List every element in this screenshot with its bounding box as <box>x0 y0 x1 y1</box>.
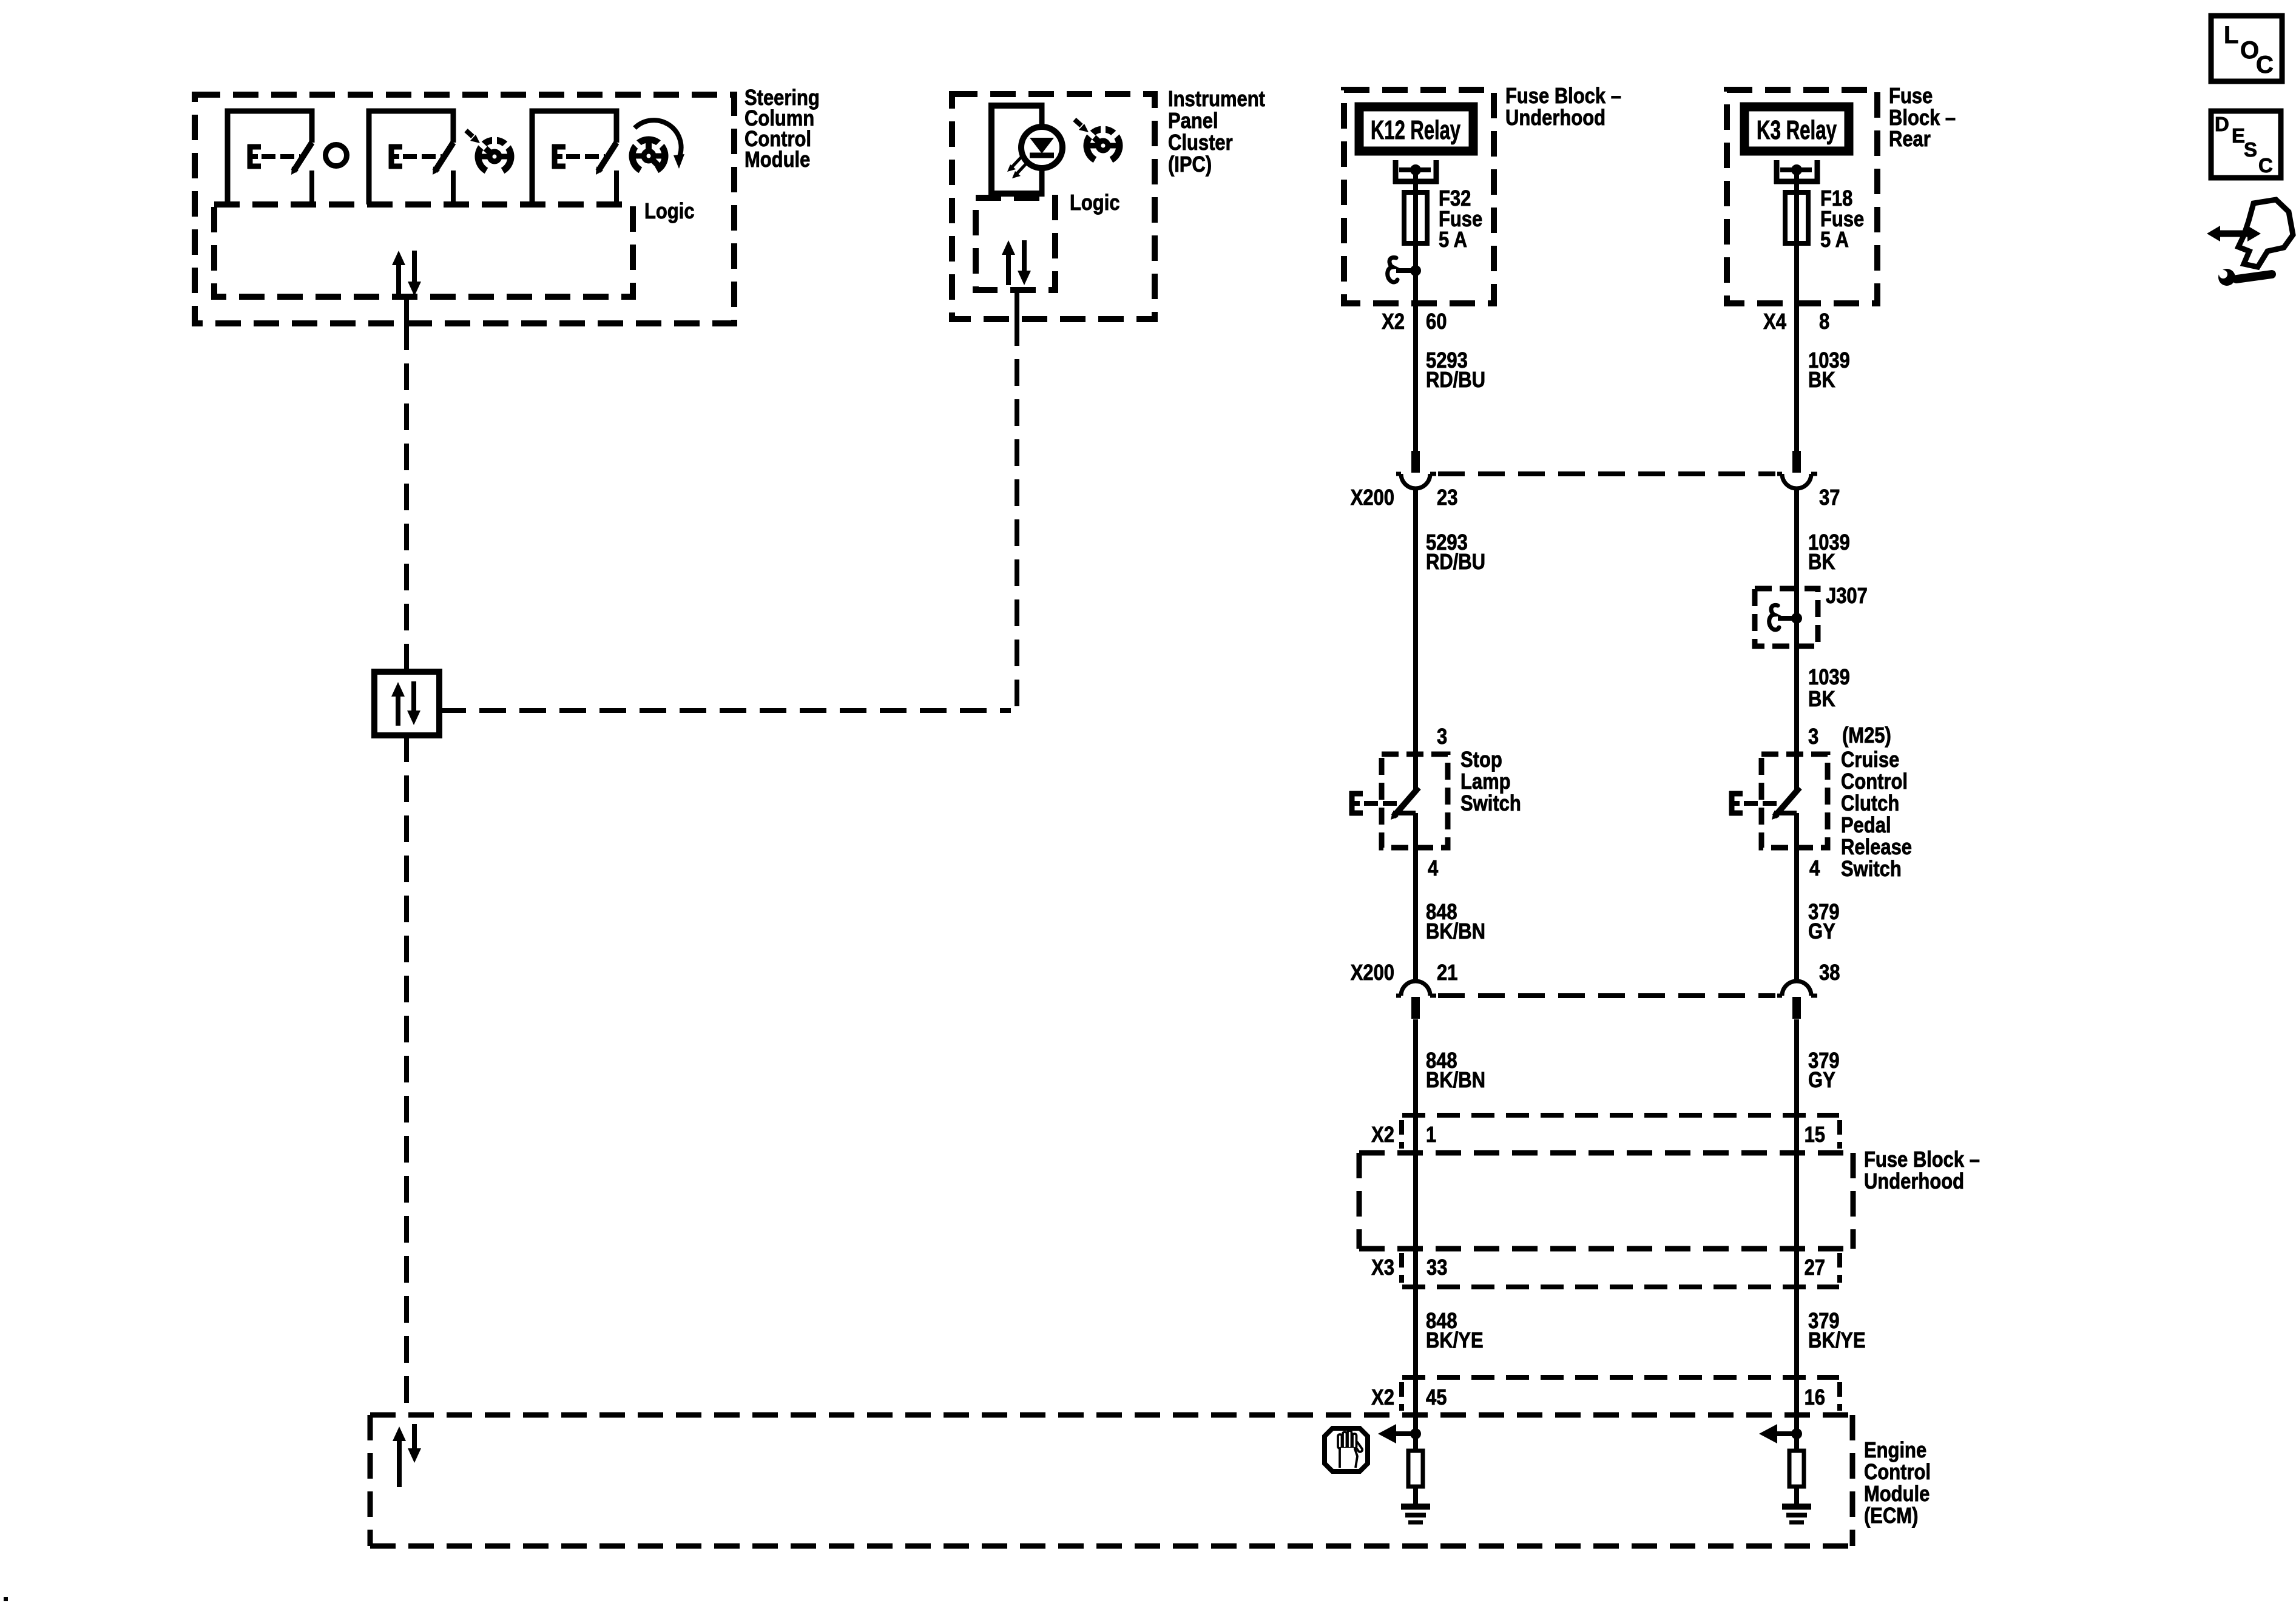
wire: serial data from SCCM (dashed) down to gateway <box>404 323 409 672</box>
wire label: 5293 RD/BU (upper) <box>1426 349 1485 393</box>
svg-text:BK/BN: BK/BN <box>1426 1068 1485 1093</box>
svg-text:L: L <box>2224 22 2238 49</box>
relay K12 name box <box>1359 107 1473 151</box>
wire: K3 relay to fuse F18 <box>1794 170 1799 245</box>
svg-text:Fuse Block –: Fuse Block – <box>1864 1148 1980 1172</box>
wire: IPC logic to module edge <box>1015 290 1019 319</box>
svg-text:60: 60 <box>1426 310 1447 334</box>
connector X200 pin 23 (inline) <box>1396 451 1436 488</box>
terminal clip J307 <box>1769 605 1802 630</box>
svg-text:Clutch: Clutch <box>1841 792 1899 816</box>
wire label: 1039 BK (lower) <box>1808 666 1850 712</box>
wire label: 848 BK/BN (upper) <box>1426 900 1485 944</box>
svg-text:X200: X200 <box>1351 486 1394 510</box>
svg-text:GY: GY <box>1808 1068 1835 1093</box>
svg-text:C: C <box>2258 154 2273 177</box>
svg-text:(M25): (M25) <box>1842 724 1891 748</box>
label: J307 <box>1826 584 1868 609</box>
svg-text:RD/BU: RD/BU <box>1426 550 1485 575</box>
svg-text:4: 4 <box>1428 857 1439 881</box>
label: 38 <box>1819 961 1840 985</box>
svg-text:K12 Relay: K12 Relay <box>1371 115 1460 145</box>
LED indicator (cruise lamp) in IPC <box>1021 127 1062 168</box>
label: Logic (SCCM) <box>644 200 695 224</box>
svg-text:Engine: Engine <box>1864 1439 1926 1463</box>
svg-text:5 A: 5 A <box>1439 228 1467 252</box>
wire: X200-38 down to fuse block X2-15 <box>1794 1019 1799 1434</box>
label: Logic (IPC) <box>1070 191 1120 215</box>
splice J307 (dashed box) <box>1755 589 1818 646</box>
wire label: 379 GY (lower) <box>1808 1049 1840 1093</box>
wire: SCCM logic to module edge <box>404 297 409 323</box>
label: Engine Control Module (ECM) <box>1864 1439 1931 1528</box>
label: Fuse Block - Rear <box>1889 84 1956 152</box>
wire: X200-37 to J307 <box>1794 487 1799 791</box>
svg-text:Logic: Logic <box>1070 191 1120 215</box>
svg-text:BK: BK <box>1808 550 1835 575</box>
switch: Cruise Control Clutch Pedal Release Switch <box>1729 754 1828 848</box>
pin label X2 60 <box>1382 310 1447 334</box>
connector strip X2 separators <box>1402 1120 1840 1149</box>
svg-text:X4: X4 <box>1763 310 1786 334</box>
svg-text:BK/YE: BK/YE <box>1426 1329 1484 1353</box>
fuse F18 <box>1785 192 1808 243</box>
serial data arrows in SCCM logic <box>392 251 421 297</box>
svg-text:C: C <box>2256 52 2274 78</box>
switch S3 resume (E-actuator switch) in SCCM <box>532 111 616 204</box>
svg-text:Lamp: Lamp <box>1460 770 1511 794</box>
logic box inside SCCM (dashed) <box>214 204 633 297</box>
svg-text:Module: Module <box>745 148 810 172</box>
svg-text:BK/BN: BK/BN <box>1426 920 1485 944</box>
connector strip ECM X2 separators <box>1402 1382 1840 1411</box>
svg-text:Rear: Rear <box>1889 127 1931 152</box>
svg-text:8: 8 <box>1819 310 1829 334</box>
svg-text:23: 23 <box>1437 486 1457 510</box>
label: Fuse Block - Underhood (lower) <box>1864 1148 1980 1194</box>
node: serial data junction box <box>374 672 439 735</box>
wire: serial data from IPC (dashed) <box>1015 319 1019 711</box>
svg-text:Fuse: Fuse <box>1889 84 1933 109</box>
pin label 4 (stop lamp switch) <box>1428 857 1439 881</box>
label: Fuse Block - Underhood <box>1505 84 1621 130</box>
connector strip X2 top line <box>1402 1113 1839 1118</box>
indicator lamp branch box in IPC <box>991 103 1042 197</box>
switch: Stop Lamp Switch <box>1349 754 1448 848</box>
connector strip X3 bottom line <box>1402 1284 1839 1289</box>
page mark (bottom left dot) <box>4 1597 8 1601</box>
svg-text:Panel: Panel <box>1168 109 1218 133</box>
connector strip ECM X2 top line <box>1402 1375 1839 1380</box>
component box: Fuse Block - Rear (dashed outline) <box>1727 90 1877 303</box>
svg-text:Release: Release <box>1841 836 1912 860</box>
svg-text:27: 27 <box>1805 1256 1825 1280</box>
wire label: 379 BK/YE <box>1808 1309 1866 1353</box>
label: 37 <box>1819 486 1840 510</box>
svg-text:Cruise: Cruise <box>1841 748 1899 772</box>
module box: Instrument Panel Cluster (dashed outline) <box>952 94 1155 319</box>
component box: Fuse Block - Underhood (dashed outline) <box>1344 90 1494 303</box>
switch S1 cruise on/off (E-actuator switch) in SCCM <box>228 111 312 204</box>
LED emission arrows <box>1007 157 1026 178</box>
wire: fuse block to connector X2-60 <box>1413 271 1418 451</box>
relay K3 contact <box>1774 160 1820 184</box>
svg-text:Cluster: Cluster <box>1168 131 1233 155</box>
wire label: 1039 BK (mid) <box>1808 531 1850 575</box>
svg-text:D: D <box>2215 113 2229 135</box>
wire: X200-23 to stop lamp switch <box>1413 487 1418 791</box>
serial data arrows in junction box <box>391 681 420 726</box>
svg-text:16: 16 <box>1805 1386 1825 1410</box>
labels: X3 33 27 <box>1371 1256 1825 1280</box>
svg-text:E: E <box>2232 124 2245 147</box>
pin label 3 (M25) (clutch switch) <box>1808 724 1891 749</box>
switch S2 set (E-actuator switch) in SCCM <box>369 111 453 204</box>
svg-text:GY: GY <box>1808 920 1835 944</box>
svg-text:BK: BK <box>1808 368 1835 393</box>
svg-text:3: 3 <box>1808 725 1818 749</box>
svg-text:21: 21 <box>1437 961 1457 985</box>
wire: clutch switch to X200-38 <box>1794 813 1799 981</box>
wire: K12 relay to fuse F32 <box>1413 170 1418 271</box>
label: Stop Lamp Switch <box>1460 748 1521 816</box>
connector X200 pin 38 (inline) <box>1777 981 1817 1019</box>
logic box inside IPC (dashed) <box>976 198 1055 290</box>
svg-text:X3: X3 <box>1371 1256 1394 1280</box>
relay K3 name box <box>1744 107 1849 151</box>
node: ECM input junction right + arrow <box>1759 1424 1802 1443</box>
svg-text:4: 4 <box>1809 857 1820 881</box>
terminal clip in fuse block <box>1388 257 1421 282</box>
wire label: 379 GY (upper) <box>1808 900 1840 944</box>
svg-text:45: 45 <box>1426 1386 1447 1410</box>
svg-text:38: 38 <box>1819 961 1840 985</box>
pin label 4 (clutch switch) <box>1809 857 1820 881</box>
svg-text:Underhood: Underhood <box>1505 106 1606 130</box>
labels: X2 45 16 <box>1371 1386 1825 1410</box>
wire: connector harness (dashed) X200 row 2 <box>1438 993 1775 998</box>
wire label: 5293 RD/BU (lower) <box>1426 531 1485 575</box>
component box: Fuse Block - Underhood lower (dashed outline) <box>1359 1153 1854 1249</box>
gauge icon in IPC (speed with arrow) <box>1075 120 1119 160</box>
wire: connector harness (dashed) X200 row 1 <box>1438 471 1775 476</box>
svg-text:15: 15 <box>1805 1123 1825 1147</box>
indicator circle for switch S1 <box>326 145 347 166</box>
wire: serial data (dashed) junction down to ECM <box>404 735 409 1415</box>
svg-text:Switch: Switch <box>1841 857 1902 882</box>
connector X200 pin 21 (inline) <box>1396 981 1436 1019</box>
serial data arrows in IPC logic <box>1002 240 1031 285</box>
svg-text:Block –: Block – <box>1889 106 1956 130</box>
pin label X4 8 <box>1763 310 1829 334</box>
svg-text:Logic: Logic <box>644 200 695 224</box>
svg-text:Control: Control <box>1864 1460 1931 1485</box>
legend icon: adjust/repair (hand with double arrow and wrench) <box>2207 200 2293 286</box>
svg-text:(ECM): (ECM) <box>1864 1504 1918 1528</box>
wire label: 1039 BK (upper) <box>1808 349 1850 393</box>
svg-text:37: 37 <box>1819 486 1840 510</box>
label: F32 Fuse 5 A <box>1439 187 1482 252</box>
svg-text:X2: X2 <box>1371 1123 1394 1147</box>
svg-text:Control: Control <box>1841 770 1908 794</box>
module box: Steering Column Control Module (dashed outline) <box>195 95 734 323</box>
svg-text:Stop: Stop <box>1460 748 1502 772</box>
label: F18 Fuse 5 A <box>1820 187 1864 252</box>
svg-text:Underhood: Underhood <box>1864 1170 1964 1194</box>
gauge icon: set speed (with arrow) <box>466 130 511 170</box>
resistor: ECM pull-up left + ground <box>1401 1434 1430 1522</box>
label: Cruise Control Clutch Pedal Release Switch <box>1841 748 1912 882</box>
module box: Engine Control Module (dashed outline) <box>370 1415 1852 1546</box>
wire: stop lamp switch to X200-21 <box>1413 813 1418 981</box>
wire: X200-21 down to fuse block X2-1 <box>1413 1019 1418 1434</box>
resistor: ECM pull-up right + ground <box>1782 1434 1811 1522</box>
gauge icon: resume speed (with curved arrow) <box>632 120 684 170</box>
svg-text:33: 33 <box>1427 1256 1447 1280</box>
svg-text:S: S <box>2244 138 2257 161</box>
connector strip X3 separators <box>1402 1253 1840 1283</box>
svg-text:Pedal: Pedal <box>1841 814 1891 838</box>
relay K12 contact <box>1393 160 1439 184</box>
svg-text:RD/BU: RD/BU <box>1426 368 1485 393</box>
label: Steering Column Control Module <box>745 86 820 172</box>
label: X200 23 <box>1351 486 1458 510</box>
svg-text:X200: X200 <box>1351 961 1394 985</box>
label: X200 21 <box>1351 961 1458 985</box>
svg-text:J307: J307 <box>1826 584 1868 609</box>
serial data arrows in ECM <box>393 1424 421 1487</box>
node: ECM input junction left + arrow <box>1378 1424 1421 1443</box>
wire label: 848 BK/BN (lower) <box>1426 1049 1485 1093</box>
labels: X2 1 15 <box>1371 1123 1825 1147</box>
svg-text:3: 3 <box>1437 725 1447 749</box>
svg-text:Switch: Switch <box>1460 792 1521 816</box>
pin label 3 (stop lamp switch) <box>1437 725 1447 749</box>
svg-text:K3 Relay: K3 Relay <box>1757 115 1837 145</box>
wire label: 848 BK/YE <box>1426 1309 1484 1353</box>
label: Instrument Panel Cluster (IPC) <box>1168 87 1265 177</box>
legend box: DESC <box>2211 111 2281 178</box>
svg-text:X2: X2 <box>1382 310 1405 334</box>
svg-text:X2: X2 <box>1371 1386 1394 1410</box>
svg-text:Module: Module <box>1864 1482 1930 1507</box>
svg-text:BK/YE: BK/YE <box>1808 1329 1866 1353</box>
connector X200 pin 37 (inline) <box>1777 451 1817 488</box>
wire: serial data (dashed) junction to IPC branch <box>439 708 1011 713</box>
fuse F32 <box>1404 192 1427 243</box>
svg-text:1039: 1039 <box>1808 666 1850 690</box>
svg-text:Fuse Block –: Fuse Block – <box>1505 84 1621 109</box>
svg-text:(IPC): (IPC) <box>1168 153 1212 177</box>
svg-text:Instrument: Instrument <box>1168 87 1265 112</box>
legend box: LOC <box>2211 16 2282 81</box>
icon: stop-hand octagon (driver alert) <box>1325 1428 1368 1471</box>
svg-text:1: 1 <box>1426 1123 1436 1147</box>
wire: fuse F18 to connector X4-8 <box>1794 245 1799 451</box>
svg-text:BK: BK <box>1808 687 1835 712</box>
svg-text:5 A: 5 A <box>1820 228 1849 252</box>
